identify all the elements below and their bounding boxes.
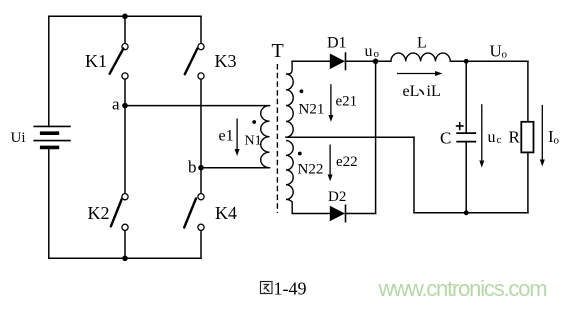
svg-text:D1: D1 (327, 35, 347, 52)
svg-text:iL: iL (427, 83, 441, 100)
svg-text:eL: eL (403, 83, 420, 100)
svg-text:K1: K1 (85, 51, 107, 71)
svg-text:N22: N22 (298, 162, 324, 178)
svg-text:U: U (490, 42, 502, 61)
svg-text:e22: e22 (336, 154, 358, 170)
svg-text:K2: K2 (88, 203, 110, 223)
svg-text:K4: K4 (215, 203, 237, 223)
svg-text:e1: e1 (219, 128, 234, 145)
svg-text:u: u (365, 43, 373, 60)
svg-text:e21: e21 (336, 94, 358, 110)
svg-text:c: c (497, 134, 502, 146)
svg-text:o: o (554, 135, 560, 147)
svg-text:T: T (272, 40, 284, 62)
svg-text:C: C (440, 129, 451, 148)
svg-text:o: o (502, 49, 508, 61)
svg-text:u: u (488, 129, 496, 146)
svg-text:o: o (374, 48, 380, 60)
svg-text:D2: D2 (328, 189, 346, 205)
svg-text:a: a (112, 95, 120, 114)
svg-text:L: L (417, 35, 427, 52)
svg-text:www.cntronics.com: www.cntronics.com (378, 276, 547, 301)
svg-text:1-49: 1-49 (274, 279, 307, 299)
svg-text:N21: N21 (299, 102, 325, 118)
svg-text:K3: K3 (215, 51, 237, 71)
svg-text:Ui: Ui (11, 130, 26, 146)
svg-text:N1: N1 (245, 134, 262, 149)
svg-text:b: b (188, 158, 197, 177)
svg-text:R: R (509, 128, 521, 147)
